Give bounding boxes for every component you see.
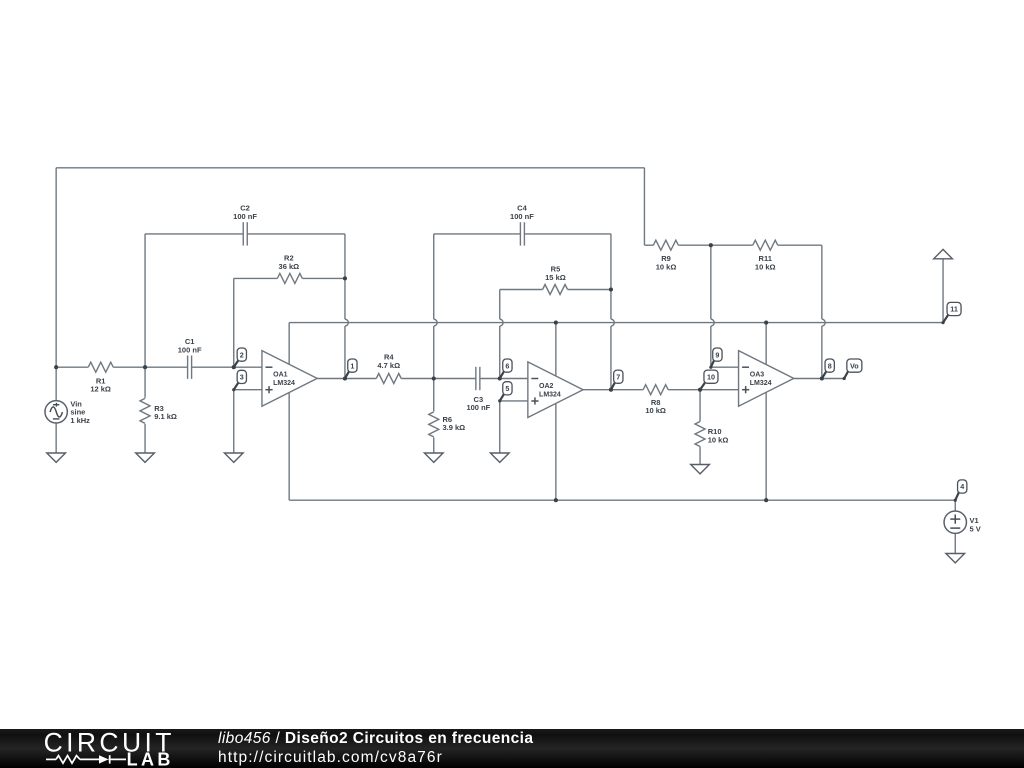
svg-text:100 nF: 100 nF bbox=[233, 212, 257, 221]
svg-text:3: 3 bbox=[240, 373, 244, 382]
svg-text:1 kHz: 1 kHz bbox=[70, 416, 90, 425]
svg-text:LM324: LM324 bbox=[273, 380, 295, 387]
svg-text:OA2: OA2 bbox=[539, 383, 554, 390]
svg-text:10 kΩ: 10 kΩ bbox=[708, 436, 729, 445]
svg-text:100 nF: 100 nF bbox=[178, 346, 202, 355]
svg-text:10: 10 bbox=[707, 372, 715, 381]
svg-text:LM324: LM324 bbox=[750, 380, 772, 387]
svg-text:5 V: 5 V bbox=[969, 524, 980, 533]
svg-text:12 kΩ: 12 kΩ bbox=[90, 385, 111, 394]
svg-text:100 nF: 100 nF bbox=[510, 212, 534, 221]
svg-text:36 kΩ: 36 kΩ bbox=[279, 262, 300, 271]
svg-text:100 nF: 100 nF bbox=[466, 403, 490, 412]
svg-text:10 kΩ: 10 kΩ bbox=[645, 406, 666, 415]
svg-text:4.7 kΩ: 4.7 kΩ bbox=[377, 361, 400, 370]
svg-text:6: 6 bbox=[505, 361, 509, 370]
svg-text:8: 8 bbox=[828, 361, 832, 370]
svg-text:9.1 kΩ: 9.1 kΩ bbox=[154, 412, 177, 421]
svg-text:OA1: OA1 bbox=[273, 372, 288, 379]
svg-text:11: 11 bbox=[950, 305, 958, 314]
svg-text:LAB: LAB bbox=[127, 750, 174, 768]
svg-text:4: 4 bbox=[960, 482, 964, 491]
svg-text:10 kΩ: 10 kΩ bbox=[656, 262, 677, 271]
svg-text:5: 5 bbox=[505, 384, 509, 393]
svg-text:1: 1 bbox=[350, 361, 354, 370]
svg-text:10 kΩ: 10 kΩ bbox=[755, 262, 776, 271]
svg-text:3.9 kΩ: 3.9 kΩ bbox=[442, 423, 465, 432]
svg-text:LM324: LM324 bbox=[539, 391, 561, 398]
svg-text:15 kΩ: 15 kΩ bbox=[545, 273, 566, 282]
svg-text:7: 7 bbox=[616, 372, 620, 381]
svg-text:Vo: Vo bbox=[850, 361, 859, 370]
svg-text:9: 9 bbox=[715, 350, 719, 359]
svg-text:2: 2 bbox=[240, 350, 244, 359]
svg-text:OA3: OA3 bbox=[750, 372, 765, 379]
